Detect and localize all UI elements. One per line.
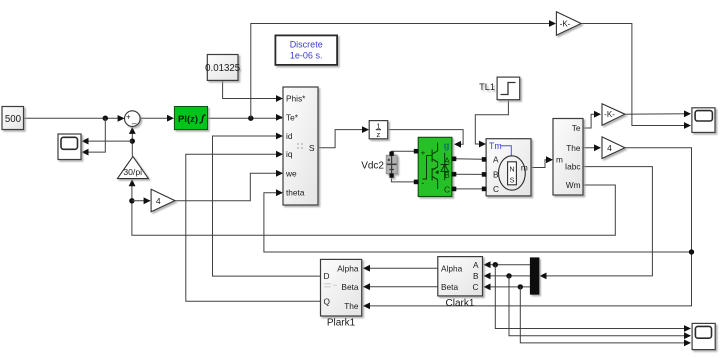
wire Wm branch to gain 4 bbox=[132, 200, 150, 202]
wire arrowhead into iq input bbox=[276, 151, 283, 158]
svg-text:Q: Q bbox=[324, 297, 331, 307]
wire Plark1 D output to id input bbox=[213, 136, 321, 276]
wire arrowhead into Clark1 B bbox=[484, 273, 491, 280]
wire 30/pi output up to sum minus input bbox=[131, 128, 133, 157]
svg-text:B: B bbox=[473, 271, 479, 281]
svg-text:4: 4 bbox=[156, 196, 161, 206]
svg-text:C: C bbox=[444, 184, 450, 194]
wire right -K- to scope upper input bbox=[625, 113, 690, 115]
wire sum to PI controller bbox=[140, 117, 173, 119]
wire demux a to Clark1 A bbox=[484, 264, 530, 266]
wire flux constant to Phis* input bbox=[223, 80, 282, 98]
wire feedback branch to scope bbox=[82, 140, 132, 142]
svg-text:4: 4 bbox=[607, 143, 612, 153]
svg-text:500: 500 bbox=[5, 114, 22, 125]
wire arrowhead into right -K- gain bbox=[594, 111, 601, 118]
svg-text:Vdc2: Vdc2 bbox=[361, 160, 384, 171]
DC voltage source Vdc2 bbox=[386, 152, 397, 178]
svg-text:30/pi: 30/pi bbox=[123, 167, 142, 177]
svg-text:Alpha: Alpha bbox=[441, 263, 463, 273]
svg-text:z: z bbox=[377, 130, 381, 139]
scope block (Te/speed) bbox=[692, 108, 715, 133]
wire inverter C to motor C bbox=[454, 188, 482, 190]
svg-text:S: S bbox=[510, 176, 515, 185]
wire phase C to current scope bbox=[520, 287, 690, 343]
wire arrowhead into bus selector m bbox=[546, 156, 553, 163]
wire arrowhead into scope2 upper input bbox=[684, 110, 691, 117]
constant block 0.01325 bbox=[205, 55, 240, 81]
wire controller S output to unit delay bbox=[318, 130, 369, 148]
inverter block (IGBT bridge) bbox=[418, 137, 452, 196]
svg-text:A: A bbox=[444, 155, 450, 165]
node phase A junction bbox=[493, 262, 498, 267]
wire arrowhead into Plark1 The input bbox=[363, 303, 370, 310]
wire Vdc- to inverter - bbox=[391, 176, 416, 182]
svg-text:–: – bbox=[132, 118, 137, 128]
PI controller block PI(z) bbox=[174, 107, 207, 130]
PMSM motor block bbox=[486, 139, 531, 196]
wire TL1 step to motor Tm input bbox=[475, 100, 508, 144]
svg-text:1: 1 bbox=[376, 121, 380, 130]
wire arrowhead into inverter g input bbox=[454, 141, 461, 148]
svg-text:0.01325: 0.01325 bbox=[205, 63, 240, 74]
svg-text:A: A bbox=[473, 260, 479, 270]
wire demux c to Clark1 C bbox=[484, 286, 530, 288]
wire Clark1 Beta to Plark1 Beta bbox=[363, 286, 438, 288]
svg-text:C: C bbox=[473, 282, 479, 292]
wire arrowhead into scope upper input bbox=[82, 138, 89, 145]
svg-text:Alpha: Alpha bbox=[337, 263, 359, 273]
svg-text:m: m bbox=[521, 163, 528, 173]
wire arrowhead into Plark1 Beta bbox=[363, 283, 370, 290]
svg-text:+: + bbox=[126, 113, 131, 122]
wire arrowhead into theta input bbox=[276, 189, 283, 196]
node phase B junction bbox=[506, 273, 511, 278]
wire inverter A to motor A bbox=[454, 158, 482, 161]
svg-text:Te: Te bbox=[572, 123, 581, 133]
wire Wm feedback to speed gains bbox=[132, 180, 615, 236]
wire top -K- to scope lower input bbox=[581, 24, 690, 126]
scope block (currents) bbox=[692, 323, 715, 349]
wire electrical angle to theta input bbox=[264, 193, 692, 252]
wire arrowhead into Plark1 Alpha bbox=[363, 265, 370, 272]
Clarke transform block Clark1 bbox=[438, 257, 483, 296]
wire arrowhead into current scope in3 bbox=[684, 340, 691, 347]
wire arrowhead into id input bbox=[276, 133, 283, 140]
svg-text:iq: iq bbox=[286, 149, 293, 159]
svg-text:Tm: Tm bbox=[489, 141, 502, 151]
svg-text:-K-: -K- bbox=[604, 110, 615, 119]
svg-text:PI(z): PI(z) bbox=[178, 114, 198, 125]
svg-text:id: id bbox=[286, 131, 293, 141]
wire 500 to sum junction bbox=[24, 117, 124, 119]
wire The to x4 gain bbox=[583, 147, 600, 149]
wire demux b to Clark1 B bbox=[484, 275, 530, 277]
svg-text:B: B bbox=[493, 170, 499, 180]
svg-text:theta: theta bbox=[286, 188, 305, 198]
scope Scope1 (speed) bbox=[58, 134, 81, 160]
step block TL1 bbox=[479, 77, 520, 100]
wire arrowhead into Phis* input bbox=[276, 95, 283, 102]
svg-text:Beta: Beta bbox=[341, 282, 358, 292]
wire arrowhead into Clark1 C bbox=[484, 284, 491, 291]
svg-text:-: - bbox=[421, 178, 424, 188]
wire unit delay to inverter gate input bbox=[388, 130, 463, 145]
wire ref branch down to scope bbox=[82, 118, 105, 152]
wire arrowhead into Tm input bbox=[479, 141, 486, 148]
Park transform block Plark1 bbox=[321, 259, 362, 316]
wire arrowhead into scope2 lower input bbox=[684, 122, 691, 129]
node theta junction bbox=[689, 249, 694, 254]
gain block -K- (top) bbox=[556, 12, 581, 36]
svg-text:D: D bbox=[324, 271, 330, 281]
svg-text:1e-06 s.: 1e-06 s. bbox=[290, 51, 323, 61]
svg-text:The: The bbox=[344, 301, 359, 311]
svg-text:Wm: Wm bbox=[566, 180, 581, 190]
demux block (Iabc split) bbox=[530, 258, 539, 294]
wire arrowhead into top -K- gain bbox=[549, 20, 556, 27]
wire arrowhead into sum - input bbox=[129, 127, 136, 134]
wire PI output to Te* input bbox=[208, 117, 283, 119]
wire speed gain to we input bbox=[175, 173, 282, 201]
svg-text:Plark1: Plark1 bbox=[327, 318, 356, 329]
wire Clark1 Alpha to Plark1 Alpha bbox=[363, 267, 438, 269]
wire arrowhead into sum + input bbox=[118, 115, 125, 122]
wire inverter B to motor B bbox=[454, 173, 482, 175]
gain block -K- (torque) bbox=[602, 104, 625, 125]
wire arrowhead into Te* input bbox=[276, 114, 283, 121]
wire arrowhead into gain 4 input bbox=[144, 197, 151, 204]
svg-text:g: g bbox=[444, 140, 450, 151]
svg-text:TL1: TL1 bbox=[479, 82, 495, 92]
svg-text:-K-: -K- bbox=[560, 20, 571, 29]
wire branch up and across top to -K- gain bbox=[251, 24, 555, 119]
svg-text:N: N bbox=[509, 164, 514, 173]
svg-text:C: C bbox=[493, 184, 499, 194]
node phase C junction bbox=[518, 284, 523, 289]
motor ports bbox=[482, 157, 487, 191]
svg-text:Discrete: Discrete bbox=[290, 40, 323, 50]
svg-text:The: The bbox=[566, 143, 581, 153]
svg-text:S: S bbox=[309, 143, 315, 153]
svg-text:A: A bbox=[493, 155, 499, 165]
powergui block Discrete 1e-06 s. bbox=[275, 35, 337, 65]
gain block 4 (angle) bbox=[602, 137, 625, 159]
wire x4 gain output down right side bbox=[363, 148, 692, 306]
gain block 30/pi bbox=[117, 156, 148, 178]
svg-text:we: we bbox=[285, 168, 297, 178]
wire Iabc to demux input bbox=[540, 167, 652, 276]
node torque-ref junction bbox=[248, 116, 253, 121]
sum block (speed error) bbox=[125, 111, 141, 127]
svg-text:m: m bbox=[556, 155, 563, 165]
svg-text:B: B bbox=[444, 170, 450, 180]
node Wm branch junction bbox=[129, 198, 134, 203]
svg-text:Clark1: Clark1 bbox=[446, 298, 475, 309]
svg-text:Phis*: Phis* bbox=[286, 94, 306, 104]
node speed feedback junction bbox=[130, 138, 135, 143]
wire phase A to current scope bbox=[495, 265, 690, 329]
svg-text:+: + bbox=[421, 148, 426, 157]
svg-text:Iabc: Iabc bbox=[565, 162, 581, 172]
node speed-ref junction bbox=[103, 116, 108, 121]
wire arrowhead into we input bbox=[276, 170, 283, 177]
unit delay block 1/z bbox=[369, 121, 388, 140]
constant block 500 bbox=[2, 107, 24, 130]
controller subsystem block bbox=[283, 87, 318, 205]
wire arrowhead into PI input bbox=[167, 115, 174, 122]
wire arrowhead into current scope in2 bbox=[684, 332, 691, 339]
wire arrowhead into 30/pi input bbox=[129, 179, 136, 186]
wire phase B to current scope bbox=[509, 276, 690, 336]
wire arrowhead into unit delay bbox=[362, 126, 369, 133]
wire motor m output to bus selector bbox=[531, 160, 552, 168]
svg-text:Te*: Te* bbox=[286, 112, 299, 122]
inverter ports bbox=[414, 149, 457, 191]
wire arrowhead into current scope in1 bbox=[684, 325, 691, 332]
wire Plark1 Q output to iq input bbox=[186, 154, 321, 301]
wire arrowhead into scope lower input bbox=[82, 149, 89, 156]
wire Vdc+ to inverter + bbox=[391, 151, 416, 153]
svg-text:Beta: Beta bbox=[441, 282, 458, 292]
wire arrowhead into Clark1 A bbox=[484, 261, 491, 268]
wire arrowhead into demux bbox=[540, 273, 547, 280]
bus selector block bbox=[553, 119, 583, 196]
wire Te to -K- gain bbox=[583, 114, 600, 128]
wire arrowhead into x4 gain bbox=[594, 144, 601, 151]
gain block 4 (pole pairs) bbox=[151, 189, 175, 212]
